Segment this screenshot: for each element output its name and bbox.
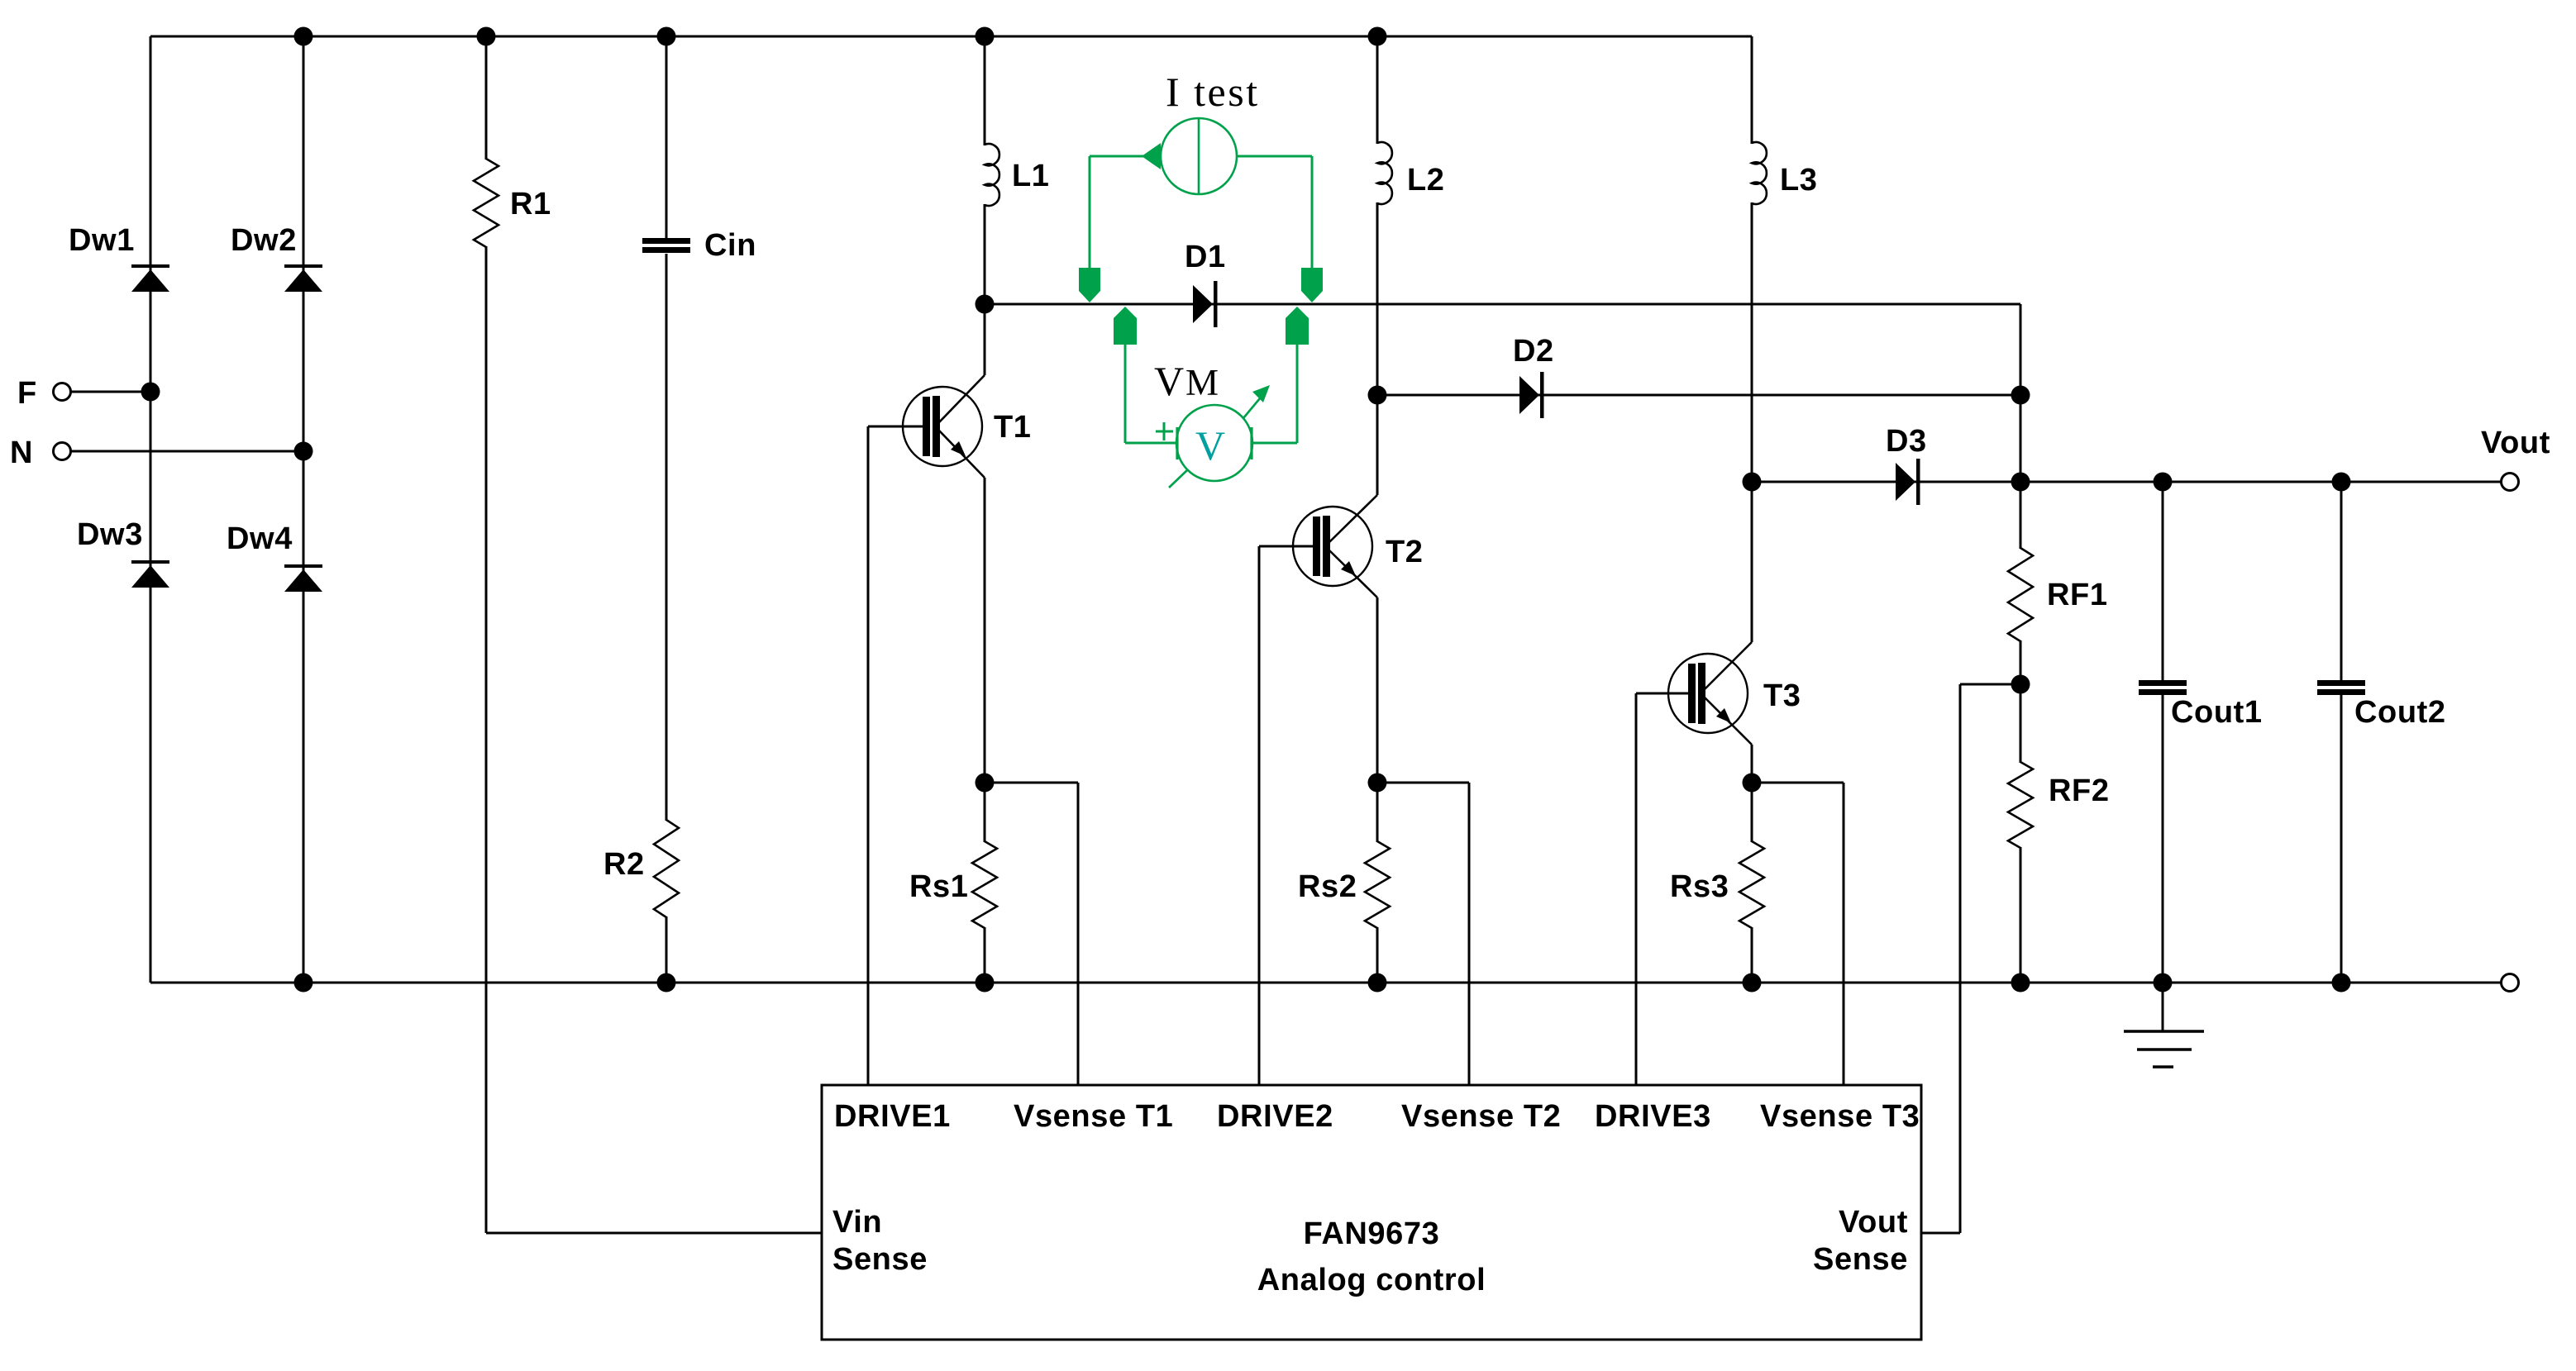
wire Vin-sense horizontal into controller (486, 1232, 822, 1235)
svg-text:DRIVE2: DRIVE2 (1217, 1099, 1333, 1134)
junction ground at RF2 (2011, 974, 2030, 993)
transistor T3 (1668, 654, 1748, 733)
junction RF column at Vout row (2011, 473, 2030, 492)
diode D2 (1519, 376, 1539, 414)
junction ground at Rs2 (1368, 974, 1387, 993)
wire Cout2 column (2340, 482, 2343, 681)
junction Rs2 top (1368, 774, 1387, 793)
wire Cout1 column (2162, 482, 2164, 681)
svg-text:Vsense T1: Vsense T1 (1014, 1099, 1173, 1134)
svg-text:Rs3: Rs3 (1670, 869, 1729, 904)
svg-text:Vin: Vin (832, 1205, 882, 1240)
arrow Itest left probe (down) (1079, 268, 1100, 302)
wire T1 emitter to Rs1 (984, 478, 986, 842)
diode Dw2 (284, 264, 322, 268)
wire L2 to T2 collector node (1376, 202, 1379, 495)
capacitor Cin (642, 238, 690, 244)
svg-text:Dw3: Dw3 (77, 517, 143, 552)
terminal F (54, 383, 71, 401)
svg-text:Sense: Sense (832, 1242, 928, 1277)
resistor R2 (654, 820, 679, 917)
wire D2 row (1377, 394, 2020, 397)
svg-text:Cout1: Cout1 (2171, 695, 2263, 730)
terminal Vout (2502, 474, 2519, 491)
svg-text:Vsense T3: Vsense T3 (1760, 1099, 1920, 1134)
wire Vsense T2 tap (1377, 782, 1469, 784)
resistor Rs3 (1739, 841, 1764, 928)
svg-text:F: F (17, 376, 37, 411)
svg-text:V: V (1154, 358, 1184, 404)
wire Vsense T3 tap (1752, 782, 1844, 784)
junction node D1 anode (L1/T1) (976, 295, 995, 314)
svg-text:Vsense T2: Vsense T2 (1401, 1099, 1561, 1134)
wire T2 emitter to Rs2 (1376, 597, 1379, 842)
arrow Itest right probe (down) (1301, 268, 1323, 302)
IC U1 FAN9673 analog control box (822, 1085, 1921, 1340)
diode D1 (1193, 285, 1213, 323)
svg-text:V: V (1195, 422, 1225, 469)
wire top rail (150, 36, 1752, 38)
junction ground at R2 (657, 974, 676, 993)
wire Cin/R2 branch (665, 36, 668, 239)
svg-text:I test: I test (1166, 69, 1260, 115)
wire L3 to T3 collector node (1751, 202, 1753, 642)
arrow VM right probe (up) (1286, 307, 1309, 345)
svg-text:RF1: RF1 (2047, 578, 2108, 612)
transistor T1 (903, 387, 982, 466)
junction Vout row at Cout2 (2332, 473, 2351, 492)
wire Rs2 to ground rail (1376, 927, 1379, 983)
arrow Itest left direction (1142, 143, 1161, 169)
capacitor Cout2 (2317, 680, 2365, 686)
svg-text:L1: L1 (1012, 159, 1050, 193)
wire Itest right lead (1237, 155, 1312, 158)
wire L1 column top (984, 36, 986, 145)
svg-text:N: N (10, 436, 33, 470)
wire Dw2/Dw4 branch (303, 36, 305, 983)
svg-text:DRIVE1: DRIVE1 (834, 1099, 951, 1134)
wire L3 column top (1751, 36, 1753, 144)
svg-text:FAN9673: FAN9673 (1304, 1216, 1440, 1251)
svg-text:R2: R2 (603, 847, 645, 882)
svg-text:D2: D2 (1513, 334, 1554, 369)
svg-text:R1: R1 (510, 187, 551, 221)
wire Rs3 to ground rail (1751, 927, 1753, 983)
terminal N wire (71, 450, 303, 453)
svg-text:RF2: RF2 (2049, 774, 2110, 808)
wire RF column (D1 row down to ground) (2020, 304, 2022, 549)
arrow VM left probe (up) (1114, 307, 1137, 345)
junction node D2 anode (L2/T2) (1368, 386, 1387, 405)
svg-text:Dw1: Dw1 (69, 223, 135, 258)
wire Rs1 to ground rail (984, 927, 986, 983)
svg-text:M: M (1185, 362, 1219, 403)
wire Itest left lead (1090, 155, 1161, 158)
svg-text:DRIVE3: DRIVE3 (1595, 1099, 1711, 1134)
wire T2 base / DRIVE2 (1259, 545, 1320, 548)
wire Vout-sense tap (1960, 683, 2020, 686)
svg-text:L2: L2 (1407, 163, 1445, 198)
diode Dw3 (131, 560, 169, 564)
svg-text:T1: T1 (994, 410, 1032, 445)
ground (2162, 983, 2164, 1031)
svg-text:Sense: Sense (1813, 1242, 1908, 1277)
resistor RF2 (2008, 762, 2033, 848)
svg-text:Analog control: Analog control (1257, 1263, 1486, 1297)
needle arrow of VM (1243, 398, 1260, 418)
inductor L1 (985, 144, 999, 206)
svg-text:T3: T3 (1763, 678, 1801, 713)
junction top rail at L2 (1368, 27, 1387, 46)
junction ground at Dw4 (294, 974, 313, 993)
wire L1 to T1 collector node (984, 204, 986, 375)
wire T3 base / DRIVE3 (1636, 693, 1696, 695)
wire VM right lead (1252, 442, 1297, 445)
svg-text:D1: D1 (1185, 240, 1226, 274)
wire T3 emitter to Rs3 (1751, 745, 1753, 842)
inductor L2 (1377, 142, 1392, 204)
svg-text:Rs2: Rs2 (1298, 869, 1357, 904)
svg-text:Rs1: Rs1 (909, 869, 969, 904)
svg-text:D3: D3 (1886, 424, 1927, 459)
wire VM left lead (1124, 344, 1127, 443)
svg-text:Vout: Vout (2481, 426, 2550, 460)
junction ground at Cout1 (2154, 974, 2173, 993)
junction top rail at L1 (976, 27, 995, 46)
svg-text:Vout: Vout (1839, 1205, 1908, 1240)
diode Dw4 (284, 564, 322, 568)
junction Rs3 top (1743, 774, 1762, 793)
terminal F wire (71, 391, 150, 393)
resistor Rs1 (972, 841, 997, 928)
wire ground rail (150, 982, 2501, 984)
svg-text:Cin: Cin (704, 228, 756, 263)
transistor T2 (1293, 507, 1372, 586)
node F junction (141, 383, 160, 402)
wire left input rail (Dw1/Dw3 branch) (150, 36, 152, 983)
junction top rail at Dw2 (294, 27, 313, 46)
junction ground at Rs1 (976, 974, 995, 993)
svg-text:Cout2: Cout2 (2354, 695, 2446, 730)
wire D1 output row (985, 303, 2020, 306)
svg-text:L3: L3 (1780, 163, 1818, 198)
resistor R1 (474, 159, 499, 247)
svg-text:Dw4: Dw4 (227, 521, 293, 556)
svg-text:Dw2: Dw2 (231, 223, 297, 258)
resistor RF1 (2008, 548, 2033, 641)
inductor L3 (1752, 142, 1767, 204)
junction Rs1 top (976, 774, 995, 793)
resistor Rs2 (1365, 841, 1390, 928)
wire Vsense T1 tap (985, 782, 1078, 784)
diode D3 (1896, 463, 1915, 501)
junction ground at Rs3 (1743, 974, 1762, 993)
terminal N (54, 443, 71, 460)
junction ground at Cout2 (2332, 974, 2351, 993)
junction node D3 anode (L3/T3) (1743, 473, 1762, 492)
terminal output return (2502, 974, 2519, 992)
junction RF1/RF2 divider (2011, 675, 2030, 694)
diode Dw1 (131, 264, 169, 268)
junction top rail at R1 (477, 27, 496, 46)
wire L2 column top (1376, 36, 1379, 144)
junction top rail at Cin (657, 27, 676, 46)
junction RF column at D2 row (2011, 386, 2030, 405)
node N junction (294, 442, 313, 461)
label + polarity (1156, 431, 1173, 433)
wire T1 base / DRIVE1 (868, 426, 930, 428)
capacitor Cout1 (2139, 680, 2187, 686)
svg-text:T2: T2 (1386, 535, 1424, 569)
needle tail of VM (1169, 470, 1187, 488)
wire R1 / Vin-sense branch vertical (485, 36, 488, 159)
junction Vout row at Cout1 (2154, 473, 2173, 492)
voltmeter VM circle (1176, 405, 1252, 481)
wire D3 / Vout row (1752, 481, 2501, 483)
current source Itest circle (1161, 118, 1237, 194)
